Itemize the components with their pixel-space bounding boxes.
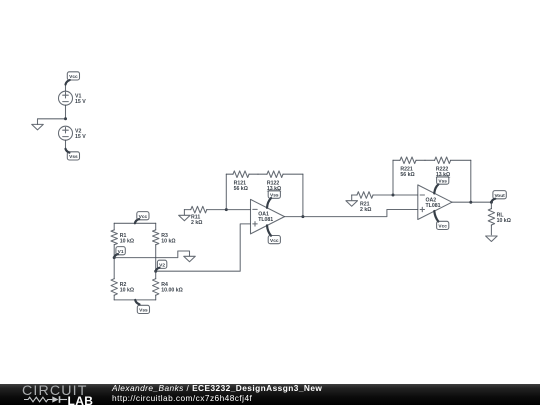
svg-text:Vss: Vss (69, 154, 78, 160)
svg-text:Vcc: Vcc (139, 214, 148, 220)
wire feedback riser left (stage 2) (392, 160, 394, 195)
flag V2 (156, 260, 167, 271)
svg-text:TL081: TL081 (258, 217, 273, 223)
CircuitLab logo resistor-diode glyph (22, 394, 70, 405)
svg-text:10.00 kΩ: 10.00 kΩ (161, 287, 182, 293)
flag Vcc (top of sources) (66, 72, 80, 85)
op-amp OA1 TL081 (251, 199, 285, 234)
svg-text:2 kΩ: 2 kΩ (191, 220, 202, 226)
flag Vcc (OA2 bottom supply) (434, 211, 449, 230)
ground (sources) (32, 124, 44, 129)
wire OA2 output to load (452, 201, 491, 203)
wire bridge bottom rail (114, 299, 156, 301)
wire node to ground (38, 119, 66, 125)
wire Vcc stub to V1 (65, 85, 67, 92)
svg-text:10 kΩ: 10 kΩ (497, 218, 511, 224)
resistor R4 (153, 271, 183, 300)
flag Vcc (bridge) (135, 212, 149, 224)
flag Vcc (OA1 bottom supply) (267, 225, 280, 244)
wire feedback riser right (stage 2) (470, 160, 472, 202)
svg-text:15 V: 15 V (75, 134, 86, 140)
node V2 junction (154, 270, 157, 273)
wire V1 node to ground (114, 251, 189, 258)
flag Vout (491, 191, 506, 203)
ground (RL) (486, 236, 498, 242)
node junction at sources midpoint (64, 117, 67, 120)
svg-text:Vcc: Vcc (270, 238, 279, 244)
svg-text:TL081: TL081 (426, 203, 441, 209)
svg-text:56 kΩ: 56 kΩ (400, 172, 414, 178)
resistor R222 (425, 157, 471, 178)
footer title text (112, 384, 322, 392)
node OA2 inverting input junction (392, 194, 395, 197)
flag Vss (OA1 top supply) (267, 190, 280, 208)
flag V1 (114, 247, 125, 258)
flag Vss (bridge) (135, 300, 149, 314)
svg-text:2 kΩ: 2 kΩ (360, 207, 371, 213)
wire feedback riser right (stage 1) (302, 174, 304, 216)
voltage source V1 (59, 91, 87, 105)
resistor R122 (258, 171, 303, 192)
svg-text:Vout: Vout (494, 193, 505, 199)
CircuitLab logo wordmark CIRCUIT (22, 384, 92, 398)
wire V1 to node (65, 105, 67, 119)
resistor RL (488, 202, 511, 235)
svg-text:V1: V1 (118, 249, 124, 255)
flag Vss (OA2 top supply) (434, 176, 449, 193)
svg-text:Vss: Vss (139, 308, 148, 314)
wire junction to OA1 minus input (226, 209, 250, 211)
ground (R11) (179, 210, 191, 221)
resistor R11 (184, 206, 226, 226)
voltage source V2 (59, 126, 87, 140)
resistor R221 (393, 157, 425, 178)
svg-text:10 kΩ: 10 kΩ (161, 239, 175, 245)
svg-text:10 kΩ: 10 kΩ (120, 239, 134, 245)
node OA1 output junction (301, 215, 304, 218)
wire junction to OA2 minus input (393, 194, 418, 196)
svg-text:Vcc: Vcc (438, 224, 447, 230)
svg-text:Vss: Vss (438, 178, 447, 184)
svg-text:Vss: Vss (270, 192, 279, 198)
ground (R21) (346, 195, 358, 206)
node OA2 output junction (469, 201, 472, 204)
wire OA1 output to OA2 plus input (285, 210, 418, 217)
svg-text:15 V: 15 V (75, 99, 86, 105)
resistor R3 (153, 223, 176, 271)
svg-text:10 kΩ: 10 kΩ (120, 287, 134, 293)
node V1 junction (113, 256, 116, 259)
node OA1 inverting input junction (225, 208, 228, 211)
resistor R2 (111, 258, 134, 300)
wire feedback riser left (stage 1) (225, 174, 227, 209)
svg-text:Vcc: Vcc (69, 74, 78, 80)
node Vout junction (490, 201, 493, 204)
wire bridge top rail (114, 222, 156, 224)
svg-text:56 kΩ: 56 kΩ (234, 186, 248, 192)
footer bar (0, 384, 540, 405)
footer url text (112, 394, 252, 402)
resistor R121 (226, 171, 258, 192)
resistor R1 (111, 223, 134, 257)
wire V2 to Vss flag (65, 140, 67, 149)
CircuitLab logo wordmark LAB (68, 395, 94, 407)
flag Vss (bottom of sources) (66, 149, 80, 160)
wire V2 to OA1 plus input (156, 224, 251, 271)
op-amp OA2 TL081 (418, 185, 452, 220)
ground (bridge V1) (184, 256, 196, 262)
resistor R21 (352, 192, 393, 214)
svg-text:V2: V2 (159, 263, 165, 269)
